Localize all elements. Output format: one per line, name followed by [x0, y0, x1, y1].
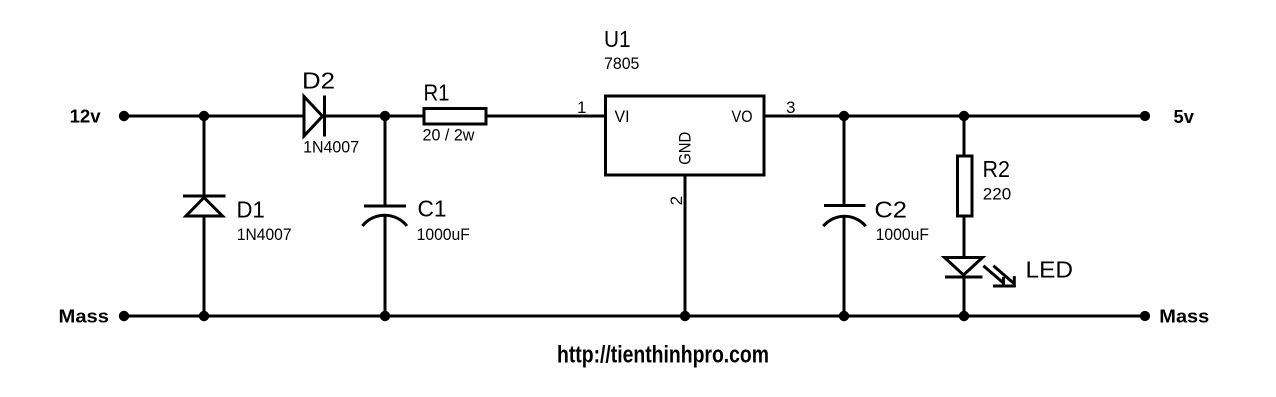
svg-text:R2: R2 — [983, 156, 1011, 182]
svg-text:Mass: Mass — [1159, 306, 1209, 326]
svg-text:7805: 7805 — [604, 54, 639, 73]
svg-text:LED: LED — [1026, 256, 1074, 282]
svg-text:VO: VO — [732, 107, 753, 126]
svg-text:220: 220 — [983, 185, 1011, 204]
svg-text:1000uF: 1000uF — [417, 225, 470, 244]
svg-text:D2: D2 — [302, 67, 335, 93]
svg-text:GND: GND — [676, 132, 695, 165]
svg-text:1N4007: 1N4007 — [237, 225, 292, 244]
svg-text:12v: 12v — [70, 107, 101, 127]
svg-text:3: 3 — [786, 98, 795, 117]
svg-text:1000uF: 1000uF — [876, 225, 929, 244]
svg-text:20 / 2w: 20 / 2w — [423, 126, 476, 145]
svg-text:http://tienthinhpro.com: http://tienthinhpro.com — [557, 342, 769, 369]
svg-text:R1: R1 — [424, 80, 450, 106]
svg-text:D1: D1 — [237, 196, 265, 222]
svg-text:2: 2 — [667, 196, 686, 205]
svg-text:C2: C2 — [874, 196, 907, 222]
svg-text:VI: VI — [615, 107, 630, 126]
svg-text:Mass: Mass — [59, 306, 110, 326]
svg-text:1: 1 — [577, 98, 586, 117]
svg-text:5v: 5v — [1174, 107, 1194, 127]
svg-text:U1: U1 — [604, 26, 631, 52]
svg-text:1N4007: 1N4007 — [303, 138, 359, 157]
svg-text:C1: C1 — [418, 195, 447, 221]
